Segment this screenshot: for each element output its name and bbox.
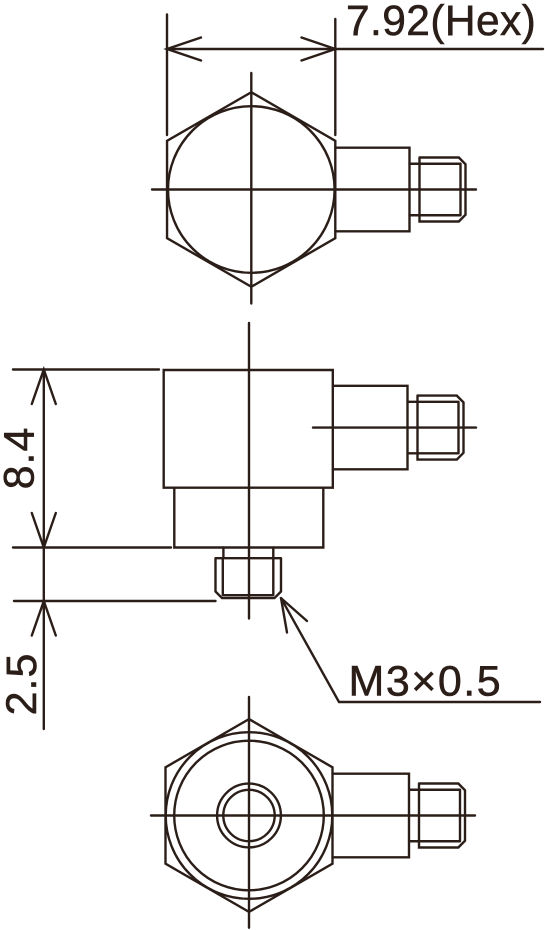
connector thread outline (bottom view)	[419, 784, 465, 848]
vertical centerline (top view)	[250, 73, 252, 304]
connector thread outline (front view)	[418, 396, 464, 460]
horizontal centerline (bottom view)	[151, 814, 475, 816]
connector neck groove (bottom view)	[409, 790, 419, 842]
leader arrowhead	[281, 598, 307, 632]
arrowhead up (8.4 top)	[32, 370, 56, 405]
arrowhead up (2.5)	[32, 601, 56, 636]
horizontal centerline (top view)	[152, 188, 476, 190]
connector thread root lines (bottom view)	[419, 790, 460, 842]
hexagon body (bottom view)	[166, 719, 333, 912]
extension line bottom (stud bottom)	[14, 600, 216, 602]
arrowhead left	[167, 38, 201, 61]
stud thread circle inner (bottom view)	[223, 790, 274, 841]
dimension line 8.4 and 2.5 tail	[43, 370, 45, 730]
svg-text:M3×0.5: M3×0.5	[349, 658, 503, 706]
extension line middle (base bottom)	[13, 546, 171, 548]
svg-text:8.4: 8.4	[0, 427, 44, 490]
svg-text:2.5: 2.5	[0, 653, 46, 716]
stud thread root lines (front view)	[223, 558, 273, 595]
connector thread outline (top view)	[420, 158, 466, 222]
connector body (top view)	[335, 148, 409, 232]
leader line	[281, 598, 540, 702]
arrowhead right	[302, 38, 336, 61]
dimension line	[167, 48, 543, 50]
connector centerline (front view)	[313, 426, 476, 428]
hexagon body (top view)	[167, 92, 335, 287]
vertical centerline (bottom view)	[248, 697, 250, 928]
stud thread circle outer (bottom view)	[217, 784, 281, 848]
stud neck (front view)	[223, 548, 273, 559]
vertical centerline (front view)	[248, 323, 250, 619]
extension line right	[334, 19, 336, 135]
base rectangle (front view)	[174, 488, 323, 548]
connector thread root lines (front view)	[418, 402, 459, 454]
arrowhead down (8.4 bottom)	[32, 513, 56, 548]
connector body (front view)	[333, 386, 408, 470]
stud thread outline (front view)	[216, 558, 282, 598]
connector body (bottom view)	[333, 774, 410, 858]
connector neck groove (front view)	[408, 402, 418, 454]
extension line left	[166, 15, 168, 136]
inscribed circle (top view)	[168, 106, 335, 273]
chamfer circle (bottom view)	[174, 741, 324, 891]
connector neck groove (top view)	[410, 164, 420, 216]
outer face circle (bottom view)	[166, 732, 333, 899]
svg-text:7.92(Hex): 7.92(Hex)	[346, 0, 536, 45]
main body rectangle (front view)	[164, 370, 333, 488]
extension line top (body top)	[13, 368, 159, 370]
connector thread root lines (top view)	[420, 164, 461, 216]
